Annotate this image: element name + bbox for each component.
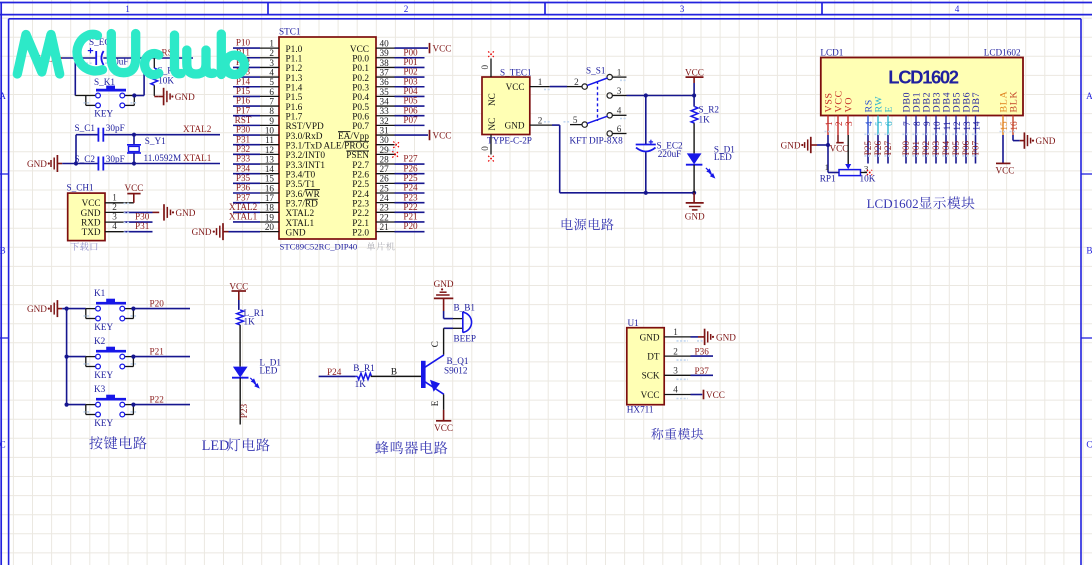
connector S_TEC1 TYPE-C-2P: [482, 68, 532, 135]
svg-text:P27: P27: [403, 154, 418, 164]
svg-text:6: 6: [617, 124, 622, 134]
svg-text:1: 1: [269, 39, 274, 49]
key S_K1: [75, 77, 134, 118]
LED S_D1: [686, 144, 735, 177]
pin 1: [530, 77, 550, 87]
svg-text:14: 14: [971, 121, 981, 131]
svg-text:2: 2: [574, 77, 579, 87]
pin 19: [260, 212, 279, 222]
capacitor S_C1 30pF: [75, 123, 125, 142]
wire net P00: [905, 135, 907, 164]
svg-text:KFT DIP-8X8: KFT DIP-8X8: [570, 136, 624, 146]
svg-text:LCD1: LCD1: [820, 47, 843, 57]
pin 9: [260, 116, 279, 126]
svg-text:P2.7: P2.7: [352, 161, 369, 171]
junction: [131, 307, 135, 311]
pin 10: [260, 125, 279, 135]
svg-text:B_R1: B_R1: [353, 363, 375, 373]
svg-text:24: 24: [380, 193, 390, 203]
svg-text:1: 1: [617, 67, 622, 77]
wire: [693, 83, 695, 107]
pin 5: [260, 77, 279, 87]
svg-text:6: 6: [269, 87, 274, 97]
svg-text:RXD: RXD: [81, 218, 101, 228]
svg-text:P2.3: P2.3: [352, 199, 369, 209]
svg-text:VCC: VCC: [229, 281, 248, 291]
svg-text:P01: P01: [403, 57, 418, 67]
svg-text:VCC: VCC: [433, 131, 452, 141]
svg-text:0: 0: [480, 65, 490, 70]
power port VCC (power circuit): [685, 67, 704, 83]
svg-text:P1.2: P1.2: [286, 64, 303, 74]
svg-text:GND: GND: [27, 304, 47, 314]
svg-text:P3.5/T1: P3.5/T1: [286, 180, 316, 190]
svg-text:P37: P37: [236, 192, 251, 202]
wire: [239, 325, 241, 367]
wire: [124, 221, 153, 223]
svg-text:C: C: [0, 440, 6, 450]
wire: [134, 95, 144, 97]
svg-text:1K: 1K: [699, 115, 711, 125]
ground (buzzer): [434, 279, 454, 299]
svg-text:5: 5: [874, 121, 884, 126]
svg-text:P15: P15: [236, 86, 251, 96]
pin 30: [376, 135, 395, 145]
svg-text:XTAL1: XTAL1: [229, 212, 258, 222]
svg-text:P0.6: P0.6: [352, 113, 369, 123]
svg-text:4: 4: [112, 221, 117, 231]
junction: [131, 355, 135, 359]
svg-text:DT: DT: [647, 352, 660, 362]
svg-text:GND: GND: [175, 92, 195, 102]
svg-text:P02: P02: [403, 67, 418, 77]
svg-text:XTAL2: XTAL2: [286, 209, 315, 219]
resistor B_R1 1K: [353, 363, 375, 389]
LED L_D1: [232, 358, 281, 388]
ground (power circuit): [685, 193, 705, 222]
wire net P06: [395, 115, 425, 117]
wire net P21: [395, 221, 425, 223]
svg-text:P2.2: P2.2: [352, 209, 369, 219]
LCD module LCD1: [820, 47, 1023, 115]
label 电源电路: [562, 218, 614, 230]
no-ERC pot pin3: [867, 170, 872, 175]
svg-text:3: 3: [673, 366, 678, 376]
pin 5 RW: [874, 96, 885, 135]
svg-text:P16: P16: [236, 96, 251, 106]
wire: [691, 394, 703, 396]
svg-text:P20: P20: [150, 298, 165, 308]
wire VCC: [837, 135, 839, 142]
transistor B_Q1 S9012: [423, 355, 469, 394]
svg-text:GND: GND: [286, 228, 306, 238]
pin 13 DB6: [962, 92, 973, 135]
svg-text:P3.4/T0: P3.4/T0: [286, 170, 316, 180]
svg-text:16: 16: [265, 183, 275, 193]
switch S_S1 KFT DIP-8X8: [567, 66, 627, 146]
svg-text:K3: K3: [94, 384, 106, 394]
svg-text:37: 37: [380, 67, 390, 77]
wire net P03: [395, 86, 425, 88]
wire net P03: [935, 135, 937, 164]
wire: [645, 152, 647, 193]
svg-text:VCC: VCC: [830, 144, 849, 154]
label 下载口: [70, 242, 97, 251]
svg-text:11: 11: [265, 135, 274, 145]
wire: [693, 165, 695, 193]
svg-text:GND: GND: [1036, 136, 1056, 146]
wire: [443, 394, 445, 410]
wire: [238, 300, 240, 310]
svg-text:17: 17: [265, 193, 275, 203]
svg-text:XTAL1: XTAL1: [183, 153, 212, 163]
wire pin31 to VCC: [395, 134, 429, 136]
svg-text:P23: P23: [403, 192, 418, 202]
pin 37: [376, 67, 395, 77]
wire: [371, 375, 421, 377]
svg-text:19: 19: [265, 212, 275, 222]
svg-text:P02: P02: [921, 140, 931, 155]
pin 2: [664, 346, 690, 356]
wire net P27: [887, 135, 889, 164]
svg-text:C: C: [1086, 440, 1092, 450]
power port VCC (pin40): [430, 43, 452, 54]
svg-text:22: 22: [380, 212, 390, 222]
capacitor S_C2 30pF: [75, 154, 125, 171]
svg-text:2: 2: [112, 202, 117, 212]
svg-text:P26: P26: [403, 163, 418, 173]
svg-text:P31: P31: [236, 134, 251, 144]
svg-text:12: 12: [952, 121, 962, 131]
pin 25: [376, 183, 395, 193]
svg-text:S_R2: S_R2: [699, 104, 720, 114]
svg-text:GND: GND: [81, 208, 101, 218]
svg-text:P0.4: P0.4: [352, 93, 369, 103]
junction: [74, 161, 78, 165]
pin 2: [260, 48, 279, 58]
pin 17: [260, 193, 279, 203]
svg-text:20: 20: [265, 222, 275, 232]
pin 20: [260, 222, 279, 232]
svg-text:P07: P07: [970, 140, 980, 155]
wire net P20: [395, 231, 425, 233]
svg-text:KEY: KEY: [94, 108, 113, 118]
pin 40: [376, 39, 395, 49]
wire net P07: [395, 124, 425, 126]
svg-text:14: 14: [265, 164, 275, 174]
svg-text:P07: P07: [403, 115, 418, 125]
svg-text:6: 6: [884, 121, 894, 126]
wire net P01: [395, 66, 425, 68]
pin 1: [260, 39, 279, 49]
no-ERC: [488, 51, 494, 57]
svg-text:21: 21: [380, 222, 390, 232]
wire net XTAL1: [233, 221, 260, 223]
svg-text:25: 25: [380, 183, 390, 193]
svg-text:9: 9: [269, 116, 274, 126]
wire net P04: [395, 95, 425, 97]
pin 13: [260, 154, 279, 164]
junction: [65, 403, 69, 407]
svg-text:32: 32: [380, 116, 390, 126]
junction: [73, 56, 77, 60]
junction: [644, 93, 648, 97]
svg-text:2: 2: [673, 346, 678, 356]
wire net XTAL2: [233, 211, 260, 213]
wire net P07: [975, 135, 977, 164]
svg-text:12: 12: [265, 145, 275, 155]
svg-text:1K: 1K: [355, 379, 367, 389]
svg-text:16: 16: [1009, 121, 1019, 131]
svg-text:P25: P25: [863, 140, 873, 155]
svg-text:P2.0: P2.0: [352, 228, 369, 238]
pin 35: [376, 87, 395, 97]
wire net P01: [915, 135, 917, 164]
svg-text:RST: RST: [235, 115, 252, 125]
svg-text:SCK: SCK: [642, 371, 660, 381]
svg-text:P0.5: P0.5: [352, 103, 369, 113]
svg-text:1: 1: [825, 162, 829, 172]
svg-text:GND: GND: [640, 332, 660, 342]
pin 12: [260, 145, 279, 155]
MCU U STC1: [279, 26, 376, 239]
svg-text:P3.2/INT0: P3.2/INT0: [286, 151, 326, 161]
svg-text:P05: P05: [403, 96, 418, 106]
svg-text:P20: P20: [403, 221, 418, 231]
svg-text:VCC: VCC: [350, 45, 369, 55]
svg-text:A: A: [0, 91, 6, 101]
ground (S_CH1 pin2): [153, 204, 196, 220]
capacitor S_EC1 10uF: [88, 37, 129, 66]
svg-text:P21: P21: [403, 212, 418, 222]
wire net P16: [233, 105, 260, 107]
crystal S_Y1 11.0592M: [127, 135, 181, 164]
junction: [131, 403, 135, 407]
svg-text:P23: P23: [239, 403, 249, 418]
wire net P05: [395, 105, 425, 107]
svg-text:18: 18: [265, 203, 275, 213]
pin 7 DB0: [902, 92, 913, 135]
svg-text:2: 2: [834, 121, 844, 126]
wire RST main: [62, 57, 193, 59]
svg-text:VCC: VCC: [996, 166, 1015, 176]
svg-text:13: 13: [962, 121, 972, 131]
pin 3: [260, 58, 279, 68]
svg-text:STC89C52RC_DIP40: STC89C52RC_DIP40: [280, 241, 358, 251]
svg-text:S_CH1: S_CH1: [67, 183, 94, 193]
svg-text:P37: P37: [695, 366, 710, 376]
wire VSS to gnd: [817, 135, 828, 145]
wire: [444, 298, 453, 318]
wire: [645, 96, 647, 145]
svg-text:P05: P05: [951, 140, 961, 155]
svg-text:B: B: [1086, 246, 1092, 256]
svg-text:P3.1/TxD: P3.1/TxD: [286, 142, 323, 152]
svg-text:3: 3: [617, 86, 622, 96]
svg-text:GND: GND: [27, 159, 47, 169]
svg-text:LCD1602: LCD1602: [888, 67, 958, 88]
pin 4: [105, 221, 124, 232]
wire net P24: [395, 192, 425, 194]
svg-text:P2.6: P2.6: [352, 170, 369, 180]
wire: [124, 211, 153, 213]
pin 3 VO: [844, 97, 855, 135]
wire net P14: [233, 86, 260, 88]
pin 15: [260, 174, 279, 184]
svg-text:S_C2: S_C2: [75, 154, 96, 164]
svg-text:P10: P10: [236, 38, 251, 48]
junction: [65, 307, 69, 311]
pin 29: [376, 145, 395, 155]
pin 4: [664, 385, 690, 395]
svg-text:XTAL2: XTAL2: [183, 124, 212, 134]
svg-text:5: 5: [573, 115, 578, 125]
wire net P10: [233, 47, 260, 49]
wire: [550, 86, 567, 88]
svg-text:P0.2: P0.2: [352, 74, 369, 84]
svg-text:S_Y1: S_Y1: [145, 136, 166, 146]
svg-text:P1.4: P1.4: [286, 84, 303, 94]
svg-text:P04: P04: [403, 86, 418, 96]
svg-text:BEEP: BEEP: [454, 333, 476, 343]
svg-text:4: 4: [617, 106, 622, 116]
svg-text:P01: P01: [911, 140, 921, 155]
svg-text:1: 1: [673, 327, 678, 337]
svg-text:LED: LED: [714, 152, 732, 162]
svg-text:35: 35: [380, 87, 390, 97]
svg-text:8: 8: [269, 106, 274, 116]
pin 31: [376, 125, 395, 135]
pin 34: [376, 96, 395, 106]
svg-text:NC: NC: [487, 93, 497, 106]
svg-text:B: B: [391, 366, 397, 376]
wire net P11: [233, 57, 260, 59]
pin 28: [376, 154, 395, 164]
pin 24: [376, 193, 395, 203]
svg-text:VCC: VCC: [641, 390, 660, 400]
wire BLA: [1002, 135, 1004, 163]
svg-text:BLK: BLK: [1009, 90, 1020, 112]
svg-text:30: 30: [380, 135, 390, 145]
svg-text:TXD: TXD: [82, 227, 101, 237]
wire net P23: [239, 378, 241, 425]
svg-text:P1.3: P1.3: [286, 74, 303, 84]
svg-text:P06: P06: [403, 105, 418, 115]
svg-text:4: 4: [864, 121, 874, 126]
power port VCC (pin31): [430, 130, 452, 141]
svg-text:S_TEC1: S_TEC1: [500, 68, 532, 78]
svg-text:P03: P03: [931, 140, 941, 155]
label 单片机: [367, 242, 395, 250]
svg-text:3: 3: [844, 121, 854, 126]
svg-text:1: 1: [538, 77, 543, 87]
svg-text:VCC: VCC: [125, 183, 144, 193]
label 称重模块: [651, 428, 703, 440]
svg-text:33: 33: [380, 106, 390, 116]
svg-text:VO: VO: [844, 97, 855, 113]
svg-text:10: 10: [932, 121, 942, 131]
svg-text:1: 1: [112, 192, 117, 202]
svg-text:E: E: [884, 106, 895, 113]
svg-text:9: 9: [922, 121, 932, 126]
svg-text:3: 3: [680, 4, 685, 14]
wire net P25: [395, 182, 425, 184]
wire BLK to gnd: [1013, 135, 1020, 141]
svg-text:7: 7: [902, 121, 912, 126]
pin 8: [260, 106, 279, 116]
wire: [124, 231, 153, 233]
pin 10 DB3: [932, 92, 943, 135]
ground (LCD left): [781, 137, 817, 153]
junction: [142, 56, 146, 60]
buzzer B_B1 BEEP: [453, 303, 476, 344]
wire net P13: [233, 76, 260, 78]
wire rail: [66, 309, 68, 405]
pin 23: [376, 203, 395, 213]
wire: [229, 231, 261, 233]
pin 38: [376, 58, 395, 68]
svg-text:P30: P30: [236, 125, 251, 135]
svg-text:P0.7: P0.7: [352, 122, 369, 132]
svg-text:GND: GND: [505, 121, 525, 131]
svg-text:P27: P27: [883, 140, 893, 155]
svg-text:28: 28: [380, 154, 390, 164]
wire net P35: [233, 182, 260, 184]
label LCD1602显示模块: [867, 196, 975, 211]
power port VCC (buzzer): [434, 410, 453, 433]
svg-text:P2.5: P2.5: [352, 180, 369, 190]
wire net P36: [233, 192, 260, 194]
pin 1: [105, 192, 134, 203]
power port VCC (LED): [229, 281, 248, 300]
junction: [132, 133, 136, 137]
pin 12 DB5: [952, 92, 963, 135]
pin 6: [260, 87, 279, 97]
pin 14 DB7: [971, 92, 982, 135]
pin 26: [376, 174, 395, 184]
svg-text:B_B1: B_B1: [454, 303, 476, 313]
svg-text:LED: LED: [260, 366, 278, 376]
svg-text:P1.7: P1.7: [286, 113, 303, 123]
svg-text:S_S1: S_S1: [586, 66, 606, 76]
svg-text:3: 3: [269, 58, 274, 68]
svg-text:P06: P06: [961, 140, 971, 155]
svg-text:P0.1: P0.1: [352, 64, 369, 74]
pin 11: [260, 135, 279, 145]
pin 3: [105, 212, 124, 223]
svg-text:DB7: DB7: [971, 92, 982, 113]
svg-text:VCC: VCC: [685, 67, 704, 77]
wire: [693, 123, 695, 153]
svg-text:VCC: VCC: [434, 423, 453, 433]
pin 36: [376, 77, 395, 87]
pin 6 E: [884, 106, 895, 135]
pin 8 DB1: [912, 92, 923, 135]
svg-text:P0.3: P0.3: [352, 84, 369, 94]
svg-text:EA/Vpp: EA/Vpp: [338, 132, 369, 142]
connector S_CH1: [67, 183, 106, 241]
wire net P06: [965, 135, 967, 164]
svg-text:P1.1: P1.1: [286, 55, 303, 65]
svg-text:40: 40: [380, 39, 390, 49]
svg-text:P17: P17: [236, 105, 251, 115]
wire net P22: [395, 211, 425, 213]
svg-text:P36: P36: [236, 183, 251, 193]
svg-text:P35: P35: [236, 173, 251, 183]
svg-text:RP1: RP1: [820, 174, 836, 184]
svg-text:27: 27: [380, 164, 390, 174]
svg-text:1: 1: [824, 121, 834, 126]
